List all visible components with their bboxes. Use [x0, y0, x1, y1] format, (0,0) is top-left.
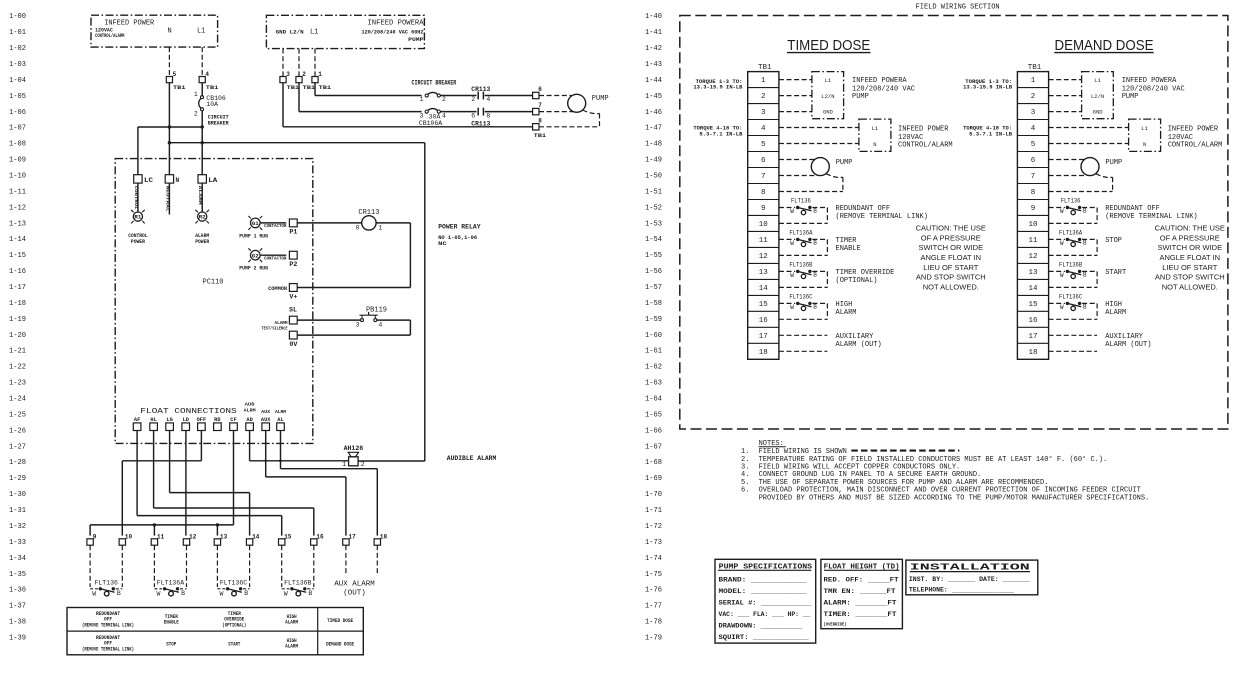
- float switch FLT136C (field, TB 15-16): [779, 293, 828, 319]
- table FLOAT HEIGHT (TD): [821, 559, 903, 628]
- svg-text:1-08: 1-08: [9, 141, 26, 149]
- label TIMER OVERRIDE: [836, 269, 895, 285]
- svg-text:RED. OFF: _____FT: RED. OFF: _____FT: [824, 576, 899, 583]
- svg-text:1-03: 1-03: [9, 61, 26, 69]
- svg-text:TIMED DOSE: TIMED DOSE: [327, 618, 353, 624]
- svg-text:LG: LG: [166, 417, 172, 423]
- svg-text:ALARM (OUT): ALARM (OUT): [836, 341, 882, 349]
- svg-text:PUMP: PUMP: [408, 36, 424, 43]
- label ALRM above AL terminal: [275, 409, 286, 415]
- svg-text:4: 4: [486, 96, 490, 103]
- float switch FLT136B (field, TB 13-14): [779, 261, 828, 287]
- svg-text:16: 16: [316, 534, 324, 541]
- svg-text:FLT136: FLT136: [791, 198, 811, 205]
- svg-text:1-78: 1-78: [645, 619, 662, 627]
- junction neutral crossing y127: [168, 125, 171, 128]
- svg-text:17: 17: [349, 534, 357, 541]
- svg-text:W: W: [790, 272, 794, 279]
- svg-text:ENABLE: ENABLE: [836, 245, 861, 253]
- svg-text:TB1: TB1: [303, 84, 316, 91]
- svg-text:2: 2: [194, 111, 198, 118]
- svg-text:1-09: 1-09: [9, 157, 26, 165]
- svg-text:1-47: 1-47: [645, 125, 662, 133]
- svg-text:ALRM: ALRM: [244, 407, 256, 413]
- svg-text:NEUTRAL: NEUTRAL: [164, 186, 168, 213]
- wire control-power bus y127 (CB106 out to LC): [138, 127, 202, 175]
- svg-text:FLT136B: FLT136B: [284, 580, 311, 587]
- svg-text:W: W: [156, 590, 160, 597]
- svg-text:STOP: STOP: [166, 642, 176, 648]
- svg-text:1-12: 1-12: [9, 204, 26, 212]
- relay contact CR113 6-8: [471, 108, 490, 128]
- svg-text:1-00: 1-00: [9, 13, 26, 21]
- svg-text:12: 12: [189, 534, 197, 541]
- svg-text:BREAKER: BREAKER: [208, 120, 230, 127]
- svg-text:1: 1: [342, 461, 346, 468]
- svg-text:11: 11: [1028, 237, 1038, 245]
- wire dashed from pump-infeed GND to TB1-3: [282, 49, 284, 77]
- svg-text:4: 4: [761, 125, 766, 133]
- terminal float HL: [150, 417, 158, 431]
- label NOTES list: [741, 440, 1149, 502]
- svg-text:INFEED POWERA: INFEED POWERA: [852, 77, 907, 85]
- svg-text:HL: HL: [150, 417, 156, 423]
- svg-text:CONTACTOR: CONTACTOR: [264, 223, 287, 229]
- heading DEMAND DOSE: [1054, 37, 1153, 54]
- svg-text:10: 10: [1028, 221, 1038, 229]
- svg-text:POWER: POWER: [131, 239, 145, 245]
- label TORQUE 1-3 TO: 13.3-15.9 IN-LB: [963, 78, 1013, 91]
- svg-text:TB1: TB1: [173, 84, 186, 91]
- junction CF bus at terminal 11 drop: [153, 523, 156, 526]
- terminal float AL: [277, 417, 285, 431]
- svg-text:1-11: 1-11: [9, 188, 26, 196]
- svg-text:R2: R2: [199, 215, 206, 221]
- svg-text:TB1: TB1: [534, 132, 547, 139]
- svg-text:FLT136A: FLT136A: [789, 229, 812, 236]
- svg-text:L1: L1: [825, 77, 832, 84]
- svg-text:PUMP 1 RUN: PUMP 1 RUN: [239, 233, 268, 239]
- svg-text:15: 15: [759, 301, 769, 309]
- label REDUNDANT OFF (REMOVE TERMINAL LINK): [1105, 205, 1197, 221]
- junction CF bus at terminal 13 drop: [216, 523, 219, 526]
- svg-text:TEST/SILENCE: TEST/SILENCE: [262, 325, 288, 331]
- svg-text:1-45: 1-45: [645, 93, 662, 101]
- svg-text:1-15: 1-15: [9, 252, 26, 260]
- svg-text:1-17: 1-17: [9, 284, 26, 292]
- svg-text:1-13: 1-13: [9, 220, 26, 228]
- terminal float AF: [133, 417, 141, 431]
- svg-text:2: 2: [761, 93, 766, 101]
- svg-text:5: 5: [173, 71, 177, 78]
- svg-text:1-25: 1-25: [9, 411, 26, 419]
- wire G1 to P1: [261, 222, 287, 224]
- svg-text:AF: AF: [134, 417, 140, 423]
- svg-text:1-27: 1-27: [9, 443, 26, 451]
- svg-text:TB1: TB1: [319, 84, 332, 91]
- svg-text:3: 3: [420, 112, 424, 119]
- wire CB106 output down to LA: [201, 111, 203, 175]
- svg-text:1-65: 1-65: [645, 411, 662, 419]
- svg-text:1-60: 1-60: [645, 332, 662, 340]
- svg-text:INFEED POWER: INFEED POWER: [898, 125, 949, 133]
- svg-text:AUDIBLE ALARM: AUDIBLE ALARM: [447, 455, 497, 462]
- float switch FLT136B (field, TB 13-14): [1049, 261, 1098, 287]
- svg-text:AND STOP SWITCH: AND STOP SWITCH: [916, 273, 986, 282]
- wire dashed TB1-2 to infeed L2/N: [1049, 95, 1082, 97]
- float switch FLT136A (timer enable / stop): [154, 545, 186, 597]
- svg-text:1-32: 1-32: [9, 523, 26, 531]
- svg-text:W: W: [1060, 240, 1064, 247]
- svg-text:17: 17: [1028, 333, 1037, 341]
- svg-text:W: W: [219, 590, 223, 597]
- label CAUTION pressure switch warning: [916, 224, 986, 292]
- wire alarm bus y142.7 to audible alarm drop: [169, 142, 424, 144]
- lamp G2 PUMP 2 RUN: [239, 248, 268, 271]
- svg-text:FLT136C: FLT136C: [1059, 293, 1082, 300]
- svg-text:TB1: TB1: [758, 64, 772, 72]
- svg-text:B: B: [244, 590, 248, 597]
- svg-text:1-56: 1-56: [645, 268, 662, 276]
- svg-text:AUXILIARY: AUXILIARY: [836, 333, 875, 341]
- terminal TB1-17 (float strip): [343, 534, 356, 546]
- svg-text:1-52: 1-52: [645, 204, 662, 212]
- svg-text:1-18: 1-18: [9, 300, 26, 308]
- infeed power source box 120/208/240 VAC 60HZ PUMP: [266, 15, 424, 48]
- svg-text:1-23: 1-23: [9, 380, 26, 388]
- svg-text:LIEU OF START: LIEU OF START: [1162, 263, 1218, 272]
- svg-text:1-68: 1-68: [645, 459, 662, 467]
- svg-text:START: START: [1105, 269, 1126, 277]
- svg-text:BRAND: ____________: BRAND: ____________: [719, 576, 807, 583]
- svg-text:4: 4: [205, 71, 209, 78]
- node AUX ALARM (OUT) terminals 17-18: [334, 545, 377, 597]
- terminal TB1-9 (float strip): [87, 534, 97, 546]
- svg-text:N: N: [176, 177, 180, 184]
- svg-text:1-73: 1-73: [645, 539, 662, 547]
- svg-text:W: W: [1060, 272, 1064, 279]
- terminal TB1-1: [312, 71, 332, 91]
- lamp R2 ALARM POWER: [195, 210, 209, 245]
- svg-text:N: N: [1143, 141, 1146, 148]
- circuit breaker CB106A 30A pole 1-2: [412, 79, 457, 103]
- svg-text:(OPTIONAL): (OPTIONAL): [222, 623, 246, 629]
- svg-text:N: N: [167, 28, 171, 36]
- label FIELD WIRING SECTION: [916, 4, 1000, 12]
- wire dashed TB1-5 to infeed N (control): [1049, 143, 1129, 145]
- svg-text:G2: G2: [252, 253, 259, 259]
- svg-text:TB1: TB1: [206, 84, 219, 91]
- svg-text:GND: GND: [823, 109, 834, 116]
- svg-text:1-02: 1-02: [9, 45, 26, 53]
- svg-text:ENABLE: ENABLE: [164, 620, 179, 626]
- wire LC to lamp R1 with CONTROL label: [133, 183, 138, 212]
- junction CB106 output at y127: [201, 125, 204, 128]
- infeed connector box L1 N (control/alarm supply): [1129, 119, 1161, 151]
- field wiring section dashed border: [680, 16, 1228, 430]
- svg-text:SQUIRT: _____________: SQUIRT: _____________: [719, 634, 809, 641]
- svg-text:1-21: 1-21: [9, 348, 26, 356]
- svg-text:INFEED POWER: INFEED POWER: [1168, 125, 1219, 133]
- float switch FLT136 (redundant off): [90, 545, 122, 597]
- svg-text:1: 1: [318, 71, 322, 78]
- svg-text:(REMOVE TERMINAL LINK): (REMOVE TERMINAL LINK): [1105, 213, 1197, 221]
- wire dashed TB1-18 auxiliary alarm: [779, 350, 828, 352]
- svg-text:1-44: 1-44: [645, 77, 662, 85]
- wire HL float to terminal 16: [154, 431, 314, 536]
- node ladder line numbers 1-40 to 1-79 (right margin): [645, 13, 662, 642]
- wire dashed TB1-17 auxiliary alarm: [779, 334, 828, 336]
- wire dashed from infeed L1 to TB1-4: [201, 47, 203, 76]
- svg-text:W: W: [1060, 304, 1064, 311]
- terminal float OFF: [197, 417, 207, 431]
- svg-text:1-43: 1-43: [645, 61, 662, 69]
- svg-text:HIGH: HIGH: [836, 301, 853, 309]
- svg-text:R1: R1: [134, 215, 141, 221]
- float switch FLT136 (field, TB 9-10): [1049, 198, 1098, 224]
- svg-text:(OVERRIDE): (OVERRIDE): [824, 621, 847, 627]
- svg-text:W: W: [790, 304, 794, 311]
- svg-text:6: 6: [471, 112, 475, 119]
- terminal 0V: [289, 331, 297, 348]
- label ALARM TEST/SILENCE: [262, 320, 288, 331]
- terminal float RD: [214, 417, 222, 431]
- svg-text:1-36: 1-36: [9, 587, 26, 595]
- svg-text:FLT136C: FLT136C: [789, 293, 812, 300]
- svg-text:8: 8: [486, 112, 490, 119]
- svg-text:VAC: ___ FLA: ___ HP: __: VAC: ___ FLA: ___ HP: __: [719, 611, 811, 618]
- label CONTACTOR for G1: [264, 223, 287, 229]
- svg-text:1-48: 1-48: [645, 141, 662, 149]
- svg-text:RD: RD: [214, 417, 220, 423]
- svg-text:7: 7: [538, 102, 542, 109]
- float switch FLT136C (field, TB 15-16): [1049, 293, 1098, 319]
- svg-text:START: START: [228, 642, 240, 648]
- svg-text:1-34: 1-34: [9, 555, 26, 563]
- label INFEED POWER 120VAC CONTROL/ALARM: [1168, 125, 1223, 149]
- svg-text:9: 9: [1031, 205, 1036, 213]
- svg-text:CIRCUIT BREAKER: CIRCUIT BREAKER: [412, 79, 457, 86]
- svg-text:ALARM: _______FT: ALARM: _______FT: [824, 599, 897, 606]
- svg-text:HIGH: HIGH: [1105, 301, 1122, 309]
- svg-text:1-79: 1-79: [645, 634, 662, 642]
- label AUXILIARY ALARM (OUT): [836, 333, 882, 349]
- svg-text:1-74: 1-74: [645, 555, 662, 563]
- svg-text:AUX: AUX: [261, 409, 270, 415]
- svg-text:TELEPHONE: ________________: TELEPHONE: ________________: [909, 586, 1014, 593]
- svg-text:3: 3: [356, 321, 360, 328]
- svg-text:7: 7: [1031, 173, 1036, 181]
- terminal block TB1 strip (demand dose): [1017, 64, 1048, 359]
- svg-text:CONTACTOR: CONTACTOR: [264, 256, 287, 262]
- svg-text:10: 10: [759, 221, 769, 229]
- svg-text:GND L2/N: GND L2/N: [276, 28, 304, 35]
- svg-text:ALARM: ALARM: [285, 644, 298, 650]
- label AUD ALRM above AD: [244, 402, 256, 414]
- svg-text:W: W: [790, 208, 794, 215]
- svg-text:1-35: 1-35: [9, 571, 26, 579]
- svg-text:B: B: [813, 208, 817, 215]
- terminal N: [165, 175, 179, 185]
- svg-text:1: 1: [761, 77, 766, 85]
- wire AL float to terminal 18: [281, 431, 378, 536]
- svg-text:1-46: 1-46: [645, 109, 662, 117]
- terminal TB1-2: [296, 71, 316, 91]
- svg-text:1: 1: [1031, 77, 1036, 85]
- svg-text:9: 9: [93, 534, 97, 541]
- wire dashed from pump-infeed L1 to TB1-1: [314, 49, 316, 77]
- svg-text:1: 1: [420, 96, 424, 103]
- terminal P2: [289, 251, 297, 268]
- svg-text:L1: L1: [1141, 125, 1148, 132]
- svg-text:1-59: 1-59: [645, 316, 662, 324]
- svg-text:1: 1: [194, 91, 198, 98]
- svg-text:13: 13: [1028, 269, 1038, 277]
- svg-text:NOT ALLOWED.: NOT ALLOWED.: [1162, 282, 1218, 291]
- svg-text:AND STOP SWITCH: AND STOP SWITCH: [1155, 273, 1225, 282]
- wire TB1-2 L2/N to breaker row: [299, 83, 422, 112]
- motor PUMP (field): [779, 158, 853, 176]
- wire dashed TB1-4 to infeed L1 (control): [779, 127, 859, 129]
- svg-text:CF: CF: [230, 417, 236, 423]
- terminal float LG: [166, 417, 174, 431]
- wire CR113 6-8 to TB1-7: [485, 111, 533, 113]
- svg-text:FLT136A: FLT136A: [157, 580, 184, 587]
- svg-text:5.3-7.1 IN-LB: 5.3-7.1 IN-LB: [969, 130, 1013, 137]
- svg-text:14: 14: [252, 534, 260, 541]
- infeed connector box L1 L2/N GND (pump supply): [1082, 72, 1114, 119]
- svg-text:7: 7: [761, 173, 766, 181]
- terminal TB1-13 (float strip): [214, 534, 227, 546]
- svg-text:SWITCH OR WIDE: SWITCH OR WIDE: [919, 243, 984, 252]
- infeed connector box L1 L2/N GND (pump supply): [812, 72, 844, 119]
- svg-text:1-55: 1-55: [645, 252, 662, 260]
- node ladder line numbers 1-00 to 1-39 (left margin): [9, 13, 26, 642]
- wire PB119 pin 4 to 0V: [297, 320, 410, 335]
- svg-text:CAUTION: THE USE: CAUTION: THE USE: [1155, 224, 1225, 233]
- svg-text:PUMP 2 RUN: PUMP 2 RUN: [239, 266, 268, 272]
- table float function legend (timed/demand dose): [67, 608, 363, 655]
- svg-text:G1: G1: [252, 221, 259, 227]
- svg-text:1-28: 1-28: [9, 459, 26, 467]
- svg-text:B: B: [308, 590, 312, 597]
- svg-text:AD: AD: [246, 417, 252, 423]
- wire AH128 pin 2 to alarm bus vertical: [358, 143, 425, 461]
- svg-text:8: 8: [761, 189, 766, 197]
- wire dashed from pump-infeed L2/N to TB1-2: [298, 49, 300, 77]
- svg-text:PUMP: PUMP: [592, 95, 609, 103]
- terminal block TB1 strip (timed dose): [748, 64, 779, 359]
- wire TB1-1 L1 to breaker row: [315, 83, 422, 96]
- svg-text:1-57: 1-57: [645, 284, 662, 292]
- svg-text:ALARM: ALARM: [836, 309, 857, 317]
- svg-text:REDUNDANT OFF: REDUNDANT OFF: [1105, 205, 1160, 213]
- svg-text:1-29: 1-29: [9, 475, 26, 483]
- svg-text:PROVIDED BY OTHERS AND MUST BE: PROVIDED BY OTHERS AND MUST BE SIZED ACC…: [759, 494, 1150, 502]
- svg-text:1-16: 1-16: [9, 268, 26, 276]
- svg-text:CONTROL/ALARM: CONTROL/ALARM: [898, 141, 953, 149]
- svg-text:SERIAL #: ____________: SERIAL #: ____________: [719, 599, 812, 606]
- float switch FLT136A (field, TB 11-12): [1049, 229, 1098, 255]
- svg-text:TB1: TB1: [1028, 64, 1042, 72]
- terminal TB1-15 (float strip): [279, 534, 292, 546]
- label HIGH ALARM: [836, 301, 857, 317]
- terminal float AUX: [261, 417, 271, 431]
- svg-text:L1: L1: [310, 28, 318, 36]
- wire TB1-5 neutral down to junction: [168, 83, 170, 175]
- svg-text:2: 2: [361, 461, 365, 468]
- label CONTACTOR for G2: [264, 256, 287, 262]
- terminal TB1-8: [533, 117, 547, 139]
- svg-text:L2/N: L2/N: [821, 93, 834, 100]
- svg-text:1-26: 1-26: [9, 427, 26, 435]
- wire dashed TB1-5 to infeed N (control): [779, 143, 859, 145]
- svg-text:8: 8: [1031, 189, 1036, 197]
- svg-text:TIMED DOSE: TIMED DOSE: [787, 37, 870, 54]
- wire dashed TB1-3 to infeed GND: [1049, 111, 1082, 113]
- relay contact CR113 2-4: [471, 86, 490, 103]
- wire dashed pump return to TB1-8: [779, 174, 843, 192]
- svg-text:P2: P2: [289, 261, 297, 268]
- svg-text:FLT136: FLT136: [95, 580, 118, 587]
- float switch FLT136C (timer override / start): [217, 545, 249, 597]
- terminal TB1-10 (float strip): [119, 534, 132, 546]
- lamp G1 PUMP 1 RUN: [239, 216, 268, 239]
- svg-text:PC110: PC110: [203, 279, 224, 287]
- svg-text:NC: NC: [438, 240, 447, 247]
- svg-text:OFF: OFF: [197, 417, 207, 423]
- svg-text:ALARM: ALARM: [197, 186, 201, 206]
- terminal TB1-14 (float strip): [246, 534, 259, 546]
- label SL: [289, 307, 297, 314]
- terminal P1: [289, 219, 297, 236]
- svg-text:1-53: 1-53: [645, 220, 662, 228]
- label INFEED POWER 120VAC CONTROL/ALARM: [898, 125, 953, 149]
- svg-text:1-10: 1-10: [9, 173, 26, 181]
- label STOP: [1105, 237, 1122, 245]
- svg-text:1-06: 1-06: [9, 109, 26, 117]
- terminal TB1-7: [533, 102, 543, 115]
- svg-text:(REMOVE TERMINAL LINK): (REMOVE TERMINAL LINK): [836, 213, 928, 221]
- svg-text:15: 15: [1028, 301, 1038, 309]
- svg-text:ALRM: ALRM: [275, 409, 286, 415]
- svg-text:AH128: AH128: [344, 445, 364, 452]
- float switch FLT136B (high alarm): [282, 545, 314, 597]
- svg-text:15: 15: [284, 534, 292, 541]
- wire dashed from infeed N to TB1-5: [168, 47, 170, 76]
- svg-text:DRAWDOWN: __________: DRAWDOWN: __________: [719, 622, 803, 629]
- svg-text:3: 3: [286, 71, 290, 78]
- terminal float LD: [182, 417, 190, 431]
- svg-text:5.3-7.1 IN-LB: 5.3-7.1 IN-LB: [699, 130, 743, 137]
- wire CR113 coil pin 1 to V+: [297, 223, 410, 288]
- svg-text:FLOAT CONNECTIONS: FLOAT CONNECTIONS: [140, 408, 236, 416]
- svg-text:L1: L1: [1094, 77, 1101, 84]
- wire AF float to terminal 15: [137, 431, 282, 536]
- wire breaker2 to CR113 contact 6-8: [440, 111, 476, 113]
- svg-text:SL: SL: [289, 307, 297, 314]
- svg-text:1-41: 1-41: [645, 29, 662, 37]
- label INFEED POWERA 120/208/240 VAC PUMP: [852, 77, 915, 101]
- label COMMON: [268, 285, 287, 292]
- svg-text:LA: LA: [208, 177, 217, 184]
- svg-text:1-40: 1-40: [645, 13, 662, 21]
- svg-text:4: 4: [378, 321, 382, 328]
- label REDUNDANT OFF (REMOVE TERMINAL LINK): [836, 205, 928, 221]
- wire dashed TB1-2 to infeed L2/N: [779, 95, 812, 97]
- label START: [1105, 269, 1126, 277]
- svg-text:GND: GND: [1093, 109, 1104, 116]
